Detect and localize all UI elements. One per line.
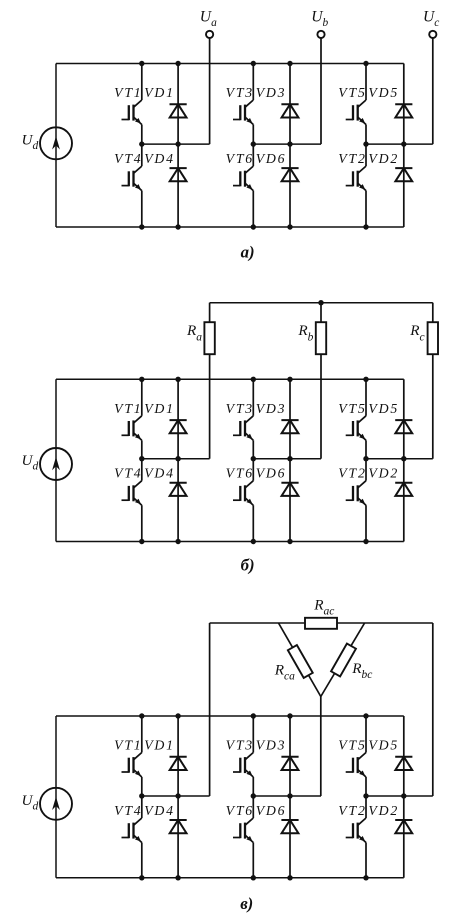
junction dot (175, 713, 180, 718)
diode VD1 (170, 379, 187, 458)
junction dot (287, 141, 292, 146)
terminal Ub (317, 31, 324, 38)
junction dot (251, 539, 256, 544)
svg-text:VT6: VT6 (226, 466, 254, 481)
junction dot (401, 141, 406, 146)
transistor VT1 (122, 716, 142, 796)
wire phase midpoint leg2 (b) (253, 458, 321, 460)
junction dot (139, 713, 144, 718)
junction dot (287, 713, 292, 718)
junction dot (139, 61, 144, 66)
diode VD2 (395, 144, 412, 227)
svg-text:VT3: VT3 (226, 401, 254, 416)
wire phase midpoint leg1 (a) (142, 143, 210, 145)
junction dot (251, 793, 256, 798)
diode VD6 (281, 144, 298, 227)
svg-text:VT5: VT5 (338, 738, 366, 753)
junction dot (139, 456, 144, 461)
svg-text:VT4: VT4 (114, 803, 142, 818)
terminal Uc (429, 31, 436, 38)
transistor VT4 (122, 459, 142, 542)
transistor VT1 (122, 379, 142, 458)
wire bottom rail (v) (56, 877, 404, 879)
wire delta right drop (phase c) (432, 623, 434, 796)
resistor Rbc (331, 644, 356, 677)
junction dot (251, 224, 256, 229)
wire delta left diagonal (279, 623, 321, 697)
diode VD5 (395, 716, 412, 796)
svg-text:VT1: VT1 (114, 401, 142, 416)
svg-text:VD1: VD1 (144, 401, 175, 416)
junction dot (401, 793, 406, 798)
transistor VT1 (122, 64, 142, 145)
transistor VT3 (233, 64, 253, 145)
diode VD4 (170, 796, 187, 878)
wire phase midpoint leg2 (a) (253, 143, 321, 145)
wire left rail (a) (55, 64, 57, 228)
junction dot (287, 377, 292, 382)
junction dot (139, 141, 144, 146)
svg-text:VD1: VD1 (144, 738, 175, 753)
transistor VT3 (233, 379, 253, 458)
wire delta right diagonal (321, 623, 365, 697)
svg-text:VT4: VT4 (114, 151, 142, 166)
svg-text:VT6: VT6 (226, 151, 254, 166)
junction dot (139, 793, 144, 798)
junction dot (251, 713, 256, 718)
svg-text:VD3: VD3 (256, 85, 287, 100)
transistor VT5 (346, 379, 366, 458)
svg-text:VT6: VT6 (226, 803, 254, 818)
svg-text:VD2: VD2 (368, 466, 399, 481)
junction dot (139, 224, 144, 229)
svg-text:VT3: VT3 (226, 85, 254, 100)
diode VD3 (281, 379, 298, 458)
junction dot (175, 793, 180, 798)
svg-text:VD6: VD6 (256, 803, 287, 818)
junction dot (139, 377, 144, 382)
svg-text:VD5: VD5 (368, 401, 399, 416)
junction dot (363, 713, 368, 718)
resistor Rca (288, 645, 313, 678)
junction dot (287, 456, 292, 461)
transistor VT5 (346, 716, 366, 796)
transistor VT4 (122, 796, 142, 878)
current source Ud (b) (40, 448, 72, 480)
svg-text:VT2: VT2 (338, 466, 366, 481)
svg-text:б): б) (241, 556, 255, 575)
diode VD2 (395, 796, 412, 878)
junction dot (175, 224, 180, 229)
junction dot (175, 61, 180, 66)
junction dot (363, 539, 368, 544)
junction dot (318, 300, 323, 305)
transistor VT2 (346, 796, 366, 878)
current source Ud (a) (40, 127, 72, 159)
junction dot (363, 61, 368, 66)
wire phase midpoint leg3 (b) (366, 458, 433, 460)
svg-text:а): а) (241, 242, 255, 261)
junction dot (251, 61, 256, 66)
wire resistor lead bottom Rb (320, 354, 322, 459)
svg-text:VT2: VT2 (338, 803, 366, 818)
transistor VT6 (233, 144, 253, 227)
diode VD1 (170, 716, 187, 796)
resistor Ra (204, 322, 214, 354)
transistor VT6 (233, 459, 253, 542)
svg-text:VT4: VT4 (114, 466, 142, 481)
wire bottom rail (b) (56, 541, 404, 543)
svg-text:VD5: VD5 (368, 85, 399, 100)
junction dot (363, 141, 368, 146)
wire resistor lead top Ra (209, 303, 211, 323)
diode VD4 (170, 144, 187, 227)
transistor VT2 (346, 144, 366, 227)
svg-text:VT5: VT5 (338, 85, 366, 100)
svg-text:VD6: VD6 (256, 151, 287, 166)
junction dot (139, 875, 144, 880)
svg-text:в): в) (240, 894, 253, 913)
svg-text:VT2: VT2 (338, 151, 366, 166)
wire phase midpoint leg3 (v) (366, 795, 433, 797)
wire delta left drop (phase a) (209, 623, 211, 796)
svg-text:VT1: VT1 (114, 738, 142, 753)
wire resistor lead top Rb (320, 303, 322, 323)
junction dot (363, 456, 368, 461)
transistor VT4 (122, 144, 142, 227)
junction dot (175, 539, 180, 544)
junction dot (139, 539, 144, 544)
resistor Rac (305, 618, 337, 629)
wire resistor lead bottom Rc (432, 354, 434, 459)
svg-text:VD6: VD6 (256, 466, 287, 481)
wire output Ub (320, 38, 322, 144)
svg-text:VD3: VD3 (256, 401, 287, 416)
diode VD3 (281, 64, 298, 145)
transistor VT6 (233, 796, 253, 878)
wire output Uc (432, 38, 434, 144)
svg-text:VD4: VD4 (144, 151, 175, 166)
transistor VT2 (346, 459, 366, 542)
transistor VT5 (346, 64, 366, 145)
wire left rail (b) (55, 379, 57, 541)
junction dot (363, 875, 368, 880)
junction dot (175, 377, 180, 382)
svg-text:VD2: VD2 (368, 803, 399, 818)
junction dot (175, 141, 180, 146)
transistor VT3 (233, 716, 253, 796)
junction dot (251, 456, 256, 461)
junction dot (175, 456, 180, 461)
junction dot (287, 875, 292, 880)
wire resistor lead bottom Ra (209, 354, 211, 459)
svg-text:VD5: VD5 (368, 738, 399, 753)
wire delta vertex drop (phase b) (320, 697, 322, 797)
resistor Rc (428, 322, 438, 354)
diode VD6 (281, 459, 298, 542)
junction dot (251, 141, 256, 146)
wire phase midpoint leg1 (b) (142, 458, 210, 460)
current source Ud (v) (40, 788, 72, 820)
diode VD4 (170, 459, 187, 542)
wire bottom rail (a) (56, 226, 404, 228)
junction dot (287, 539, 292, 544)
junction dot (287, 793, 292, 798)
diode VD2 (395, 459, 412, 542)
junction dot (363, 377, 368, 382)
terminal Ua (206, 31, 213, 38)
diode VD5 (395, 379, 412, 458)
junction dot (175, 875, 180, 880)
wire delta top side (210, 622, 433, 624)
svg-text:VD4: VD4 (144, 803, 175, 818)
wire resistor lead top Rc (432, 303, 434, 323)
svg-text:VT3: VT3 (226, 738, 254, 753)
wire top rail (v) (56, 715, 404, 717)
wire output Ua (209, 38, 211, 144)
wire top rail (b) (56, 378, 404, 380)
wire left rail (v) (55, 716, 57, 878)
diode VD5 (395, 64, 412, 145)
wire top rail (a) (56, 63, 404, 65)
junction dot (401, 456, 406, 461)
svg-text:VD1: VD1 (144, 85, 175, 100)
svg-text:VD3: VD3 (256, 738, 287, 753)
wire resistor rail (b) (210, 302, 433, 304)
wire phase midpoint leg2 (v) (253, 795, 321, 797)
svg-text:VD2: VD2 (368, 151, 399, 166)
junction dot (287, 224, 292, 229)
svg-text:VT1: VT1 (114, 85, 142, 100)
diode VD6 (281, 796, 298, 878)
svg-text:VD4: VD4 (144, 466, 175, 481)
diode VD1 (170, 64, 187, 145)
svg-text:VT5: VT5 (338, 401, 366, 416)
junction dot (363, 793, 368, 798)
junction dot (251, 377, 256, 382)
resistor Rb (316, 322, 326, 354)
wire phase midpoint leg1 (v) (142, 795, 210, 797)
junction dot (363, 224, 368, 229)
diode VD3 (281, 716, 298, 796)
wire phase midpoint leg3 (a) (366, 143, 433, 145)
junction dot (251, 875, 256, 880)
junction dot (287, 61, 292, 66)
